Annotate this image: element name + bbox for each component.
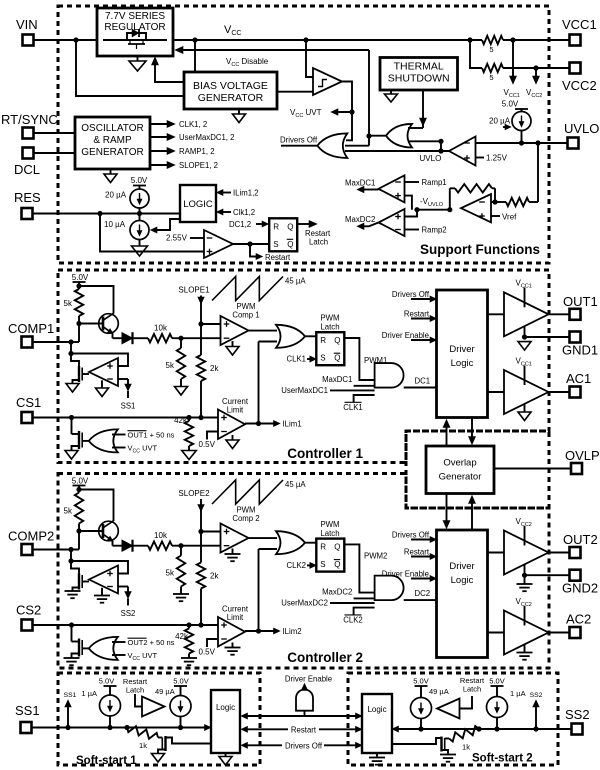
- label 45 uA (controller 2): [285, 480, 306, 489]
- svg-text:0.5V: 0.5V: [199, 648, 216, 657]
- node UVLO line branch to -Vuvlo resistor: [535, 140, 540, 145]
- svg-text:R: R: [320, 543, 326, 552]
- node CS1 at 42k: [186, 415, 191, 420]
- oscillator output UserMaxDC1,2: [150, 133, 234, 142]
- current source 1uA (soft-start 1): [81, 677, 120, 728]
- wire RES line to LOGIC: [33, 213, 180, 215]
- buffer AC1 driver: [488, 370, 549, 414]
- svg-text:R: R: [320, 336, 326, 345]
- node UVLO line at current source: [519, 140, 524, 145]
- ground below OUT2 buffer: [517, 575, 533, 591]
- comparator MaxDC1: [379, 175, 405, 202]
- label + arrow MaxDC1 output: [345, 179, 379, 193]
- resistor 5 (VCC1): [482, 36, 503, 54]
- svg-text:RT/SYNC: RT/SYNC: [1, 112, 58, 127]
- input ILim1,2 to LOGIC: [217, 189, 259, 198]
- svg-text:Latch: Latch: [463, 685, 481, 694]
- svg-text:CS1: CS1: [16, 395, 41, 410]
- wire CS2 line: [33, 624, 218, 626]
- svg-text:Comp 1: Comp 1: [232, 311, 259, 320]
- svg-text:Q: Q: [334, 560, 340, 569]
- and-gate DC1: [375, 363, 404, 388]
- current source 49uA (soft-start 2): [411, 677, 449, 730]
- wire + label DC1 to driver logic: [404, 377, 437, 388]
- svg-text:VCC2: VCC2: [562, 78, 597, 93]
- svg-text:Logic: Logic: [451, 358, 474, 369]
- resistor 1k (soft-start 1): [127, 726, 158, 750]
- wire VCC down to bias generator top: [194, 40, 196, 72]
- label Current Limit (controller 1): [222, 397, 249, 415]
- svg-text:DC1: DC1: [415, 377, 431, 386]
- wire -Vuvlo rail to MaxDC comparators: [417, 209, 450, 211]
- svg-text:Controller 2: Controller 2: [287, 650, 363, 665]
- wire link line 1 between soft-start logics: [241, 713, 362, 719]
- op-amp clamp (controller 2): [89, 566, 118, 594]
- wire MaxDC1 plus input to -Vuvlo rail: [405, 196, 412, 210]
- ground below AC2 buffer: [517, 644, 533, 660]
- wire UVT comparator output to VCC UVT node: [342, 82, 352, 113]
- buffer OUT2 driver: [488, 531, 549, 575]
- pin OVLP: [565, 448, 600, 474]
- svg-text:SS1: SS1: [121, 402, 136, 411]
- svg-text:5.0V: 5.0V: [99, 677, 114, 686]
- ground below Logic 1: [219, 753, 232, 765]
- ground below clamp mosfet (controller 2): [65, 591, 81, 598]
- comparator PWM Comp 2: [221, 524, 249, 553]
- svg-text:Q: Q: [334, 543, 340, 552]
- wire latch Q to AND gate (controller 2): [344, 544, 374, 592]
- oscillator output CLK1,2: [150, 120, 207, 129]
- input arrow Drivers Off (controller 2): [392, 531, 437, 543]
- node junction VCC at x=195: [192, 37, 197, 42]
- svg-text:DC1,2: DC1,2: [229, 220, 251, 229]
- svg-text:1.25V: 1.25V: [486, 154, 508, 163]
- arrow driver1 to overlap (down): [469, 418, 476, 445]
- wire emitter to diode (controller 1): [112, 334, 114, 339]
- comparator 2.55V restart: [204, 230, 233, 258]
- svg-text:COMP2: COMP2: [8, 529, 54, 544]
- svg-text:45 µA: 45 µA: [285, 480, 306, 489]
- svg-text:UserMaxDC2: UserMaxDC2: [281, 599, 328, 608]
- wire 10k to PWM comparator (controller 2): [172, 545, 221, 547]
- ground below oscillator: [104, 169, 117, 183]
- block OSCILLATOR & RAMP GENERATOR: [75, 117, 150, 169]
- label 45 uA (controller 1): [285, 277, 306, 286]
- dashed border: Controller 2 section: [58, 474, 549, 669]
- wire Vref stub + label: [491, 213, 517, 222]
- svg-text:SLOPE1, 2: SLOPE1, 2: [179, 161, 218, 170]
- section label Controller 1: [287, 446, 363, 461]
- wire OR output to PWM latch R (controller 1): [305, 335, 316, 337]
- svg-text:MaxDC2: MaxDC2: [345, 215, 375, 224]
- label + wire MaxDC1 input: [322, 375, 375, 386]
- label 0.5V + wire (controller 2): [199, 639, 219, 657]
- svg-text:2k: 2k: [210, 364, 219, 373]
- svg-text:OVLP: OVLP: [565, 448, 600, 463]
- svg-text:DC2: DC2: [415, 589, 431, 598]
- svg-text:AC2: AC2: [566, 612, 591, 627]
- pin OUT1: [563, 294, 598, 320]
- svg-text:UserMaxDC1: UserMaxDC1: [281, 386, 328, 395]
- svg-text:1k: 1k: [139, 741, 147, 750]
- ground below bias generator: [233, 109, 246, 123]
- resistor 10k (controller 1): [148, 324, 172, 343]
- input stubs blanking OR (controller 1): [112, 435, 126, 448]
- svg-text:1 µA: 1 µA: [81, 689, 97, 698]
- node SS2 signal branch: [533, 726, 538, 731]
- transistor Q1 (npn clamp): [99, 313, 119, 334]
- node 5V (controller 2): [76, 487, 81, 492]
- node GND2 junction + wire: [522, 564, 569, 578]
- restart latch (R/S): [269, 218, 297, 251]
- wire MaxDC2 plus input to -Vuvlo rail: [405, 210, 418, 217]
- wire + arrow ILim1 output: [245, 420, 302, 429]
- wire AC2 buffer output to pin: [549, 632, 570, 634]
- ground below current limit comp (controller 1): [226, 435, 239, 449]
- regulator U1 7.7V SERIES REGULATOR box: [97, 8, 173, 56]
- block THERMAL SHUTDOWN: [380, 58, 458, 91]
- svg-text:2.55V: 2.55V: [166, 234, 188, 243]
- svg-text:SLOPE2: SLOPE2: [178, 489, 210, 498]
- ground below regulator: [129, 56, 146, 71]
- wire OR U2 output to VCC-Disable and big OR: [345, 50, 386, 146]
- svg-text:Driver: Driver: [449, 344, 474, 355]
- supply 5.0V (controller 1): [72, 273, 89, 286]
- wire + arrow SS1 signal up: [64, 692, 77, 728]
- pin AC1: [566, 371, 591, 398]
- svg-text:ILim2: ILim2: [283, 627, 302, 636]
- svg-text:5.0V: 5.0V: [131, 176, 148, 185]
- svg-text:SS2: SS2: [121, 609, 136, 618]
- wire to clamp opamp + input (controller 2): [71, 561, 128, 574]
- svg-text:OUT2: OUT2: [563, 532, 598, 547]
- svg-text:Overlap: Overlap: [443, 458, 476, 469]
- node 2k at CS line (controller 1): [198, 415, 203, 420]
- label 20uA with arrow: [489, 117, 511, 130]
- label VCC UVT (controller 1): [128, 444, 158, 455]
- wire Ramp2 stub + label: [405, 226, 447, 235]
- svg-text:Latch: Latch: [126, 686, 144, 695]
- node slope/2k at PWM + input (controller 2): [198, 529, 203, 534]
- buffer restart latch (soft-start 1): [135, 694, 165, 717]
- svg-text:5.0V: 5.0V: [489, 677, 504, 686]
- wire VCC down to UVT comparator input: [306, 40, 313, 77]
- svg-text:COMP1: COMP1: [8, 321, 54, 336]
- oscillator output RAMP1,2: [150, 147, 215, 156]
- node 2k at CS line (controller 2): [198, 622, 203, 627]
- wire VCC2 row: [503, 67, 569, 69]
- node SS1 signal branch: [65, 725, 70, 730]
- arrow down V_CC1: [504, 40, 520, 99]
- svg-text:SS2: SS2: [565, 707, 590, 722]
- svg-text:ILim1: ILim1: [283, 420, 302, 429]
- input arrow Driver Enable (controller 2): [382, 570, 437, 582]
- mosfet clamp (controller 2): [71, 561, 89, 591]
- svg-text:1 µA: 1 µA: [510, 689, 526, 698]
- svg-text:OUT2 + 50 ns: OUT2 + 50 ns: [128, 638, 175, 647]
- svg-text:2k: 2k: [210, 572, 219, 581]
- label + arrow MaxDC2 output: [345, 215, 379, 230]
- PWM latch (controller 1): [316, 332, 344, 365]
- node after VCC1 resistor: [510, 37, 515, 42]
- svg-text:THERMAL: THERMAL: [394, 61, 444, 73]
- node A (controller 2): [178, 543, 183, 548]
- pin COMP2: [8, 529, 54, 556]
- svg-text:Q: Q: [287, 240, 293, 249]
- label Drivers Off (support): [280, 136, 318, 145]
- svg-text:CLK1: CLK1: [343, 403, 363, 412]
- wire COMP2 node down (controller 2): [68, 550, 73, 564]
- restart latch Q output arrow + label Restart Latch: [297, 221, 331, 247]
- wire + arrow Restart signal out: [250, 244, 291, 262]
- dashed border: Controller 1 section: [58, 270, 549, 463]
- svg-text:& RAMP: & RAMP: [93, 135, 132, 146]
- wire SLOPE1 down to CS line: [198, 296, 205, 418]
- arrow down V_CC2: [526, 68, 542, 99]
- resistor 42k (controller 1): [174, 416, 193, 451]
- wire PWM output to OR (controller 2): [249, 537, 278, 539]
- input arrow Driver Enable (controller 1): [382, 331, 437, 343]
- wire thermal shutdown output down to OR gate: [420, 90, 427, 128]
- section label Soft-start 2: [472, 753, 533, 765]
- svg-text:LOGIC: LOGIC: [183, 199, 213, 210]
- svg-text:BIAS VOLTAGE: BIAS VOLTAGE: [193, 80, 268, 92]
- wire COMP1 pin line: [33, 341, 79, 343]
- svg-text:Latch: Latch: [309, 238, 328, 247]
- node VCC2 branch: [533, 65, 538, 70]
- wire ILim feedback up to OR (controller 1): [259, 342, 278, 424]
- dashed border: Soft-start 2 section: [348, 673, 558, 765]
- svg-text:20 µA: 20 µA: [489, 117, 511, 126]
- ground below current limit comp (controller 2): [225, 643, 241, 655]
- label 2.55V + stub: [166, 234, 204, 243]
- resistor 2k (controller 2): [197, 563, 220, 589]
- ground below PWM comparator (controller 2): [225, 549, 241, 562]
- pin UVLO: [564, 121, 599, 149]
- pin VCC2: [562, 63, 597, 94]
- label SLOPE2: [178, 489, 210, 498]
- label Restart Latch (soft-start 2): [460, 676, 485, 694]
- svg-text:49 µA: 49 µA: [429, 687, 449, 696]
- svg-text:Controller 1: Controller 1: [287, 446, 363, 461]
- node 49uA at SS2 line: [418, 726, 423, 731]
- svg-text:RAMP1, 2: RAMP1, 2: [179, 147, 215, 156]
- svg-text:SS2: SS2: [530, 692, 543, 699]
- svg-text:CLK2: CLK2: [286, 561, 306, 570]
- svg-text:20 µA: 20 µA: [105, 191, 127, 200]
- input resistor to UVLO net: [495, 198, 538, 206]
- oscillator output SLOPE1,2: [150, 161, 218, 170]
- mosfet discharge (soft-start 1): [158, 736, 211, 754]
- wire base to COMP2 line: [79, 531, 103, 550]
- wire OUT1 buffer output to pin: [549, 313, 570, 315]
- block Logic (soft-start 1): [211, 690, 240, 753]
- ground below CS1 mosfet: [65, 451, 78, 460]
- diode D2: [113, 540, 149, 552]
- resistor 5k pullup (controller 2): [64, 490, 84, 532]
- node CS1 at MOSFET: [69, 415, 74, 420]
- node 1k branch (soft-start 1): [124, 725, 129, 730]
- svg-text:Restart: Restart: [404, 310, 430, 319]
- svg-text:Comp 2: Comp 2: [232, 514, 259, 523]
- pin SS1: [15, 703, 40, 733]
- svg-text:GND1: GND1: [562, 343, 598, 358]
- wire + arrow SS1 to clamp minus input: [118, 379, 131, 398]
- svg-text:Latch: Latch: [320, 323, 339, 332]
- label VCC2 above AC buffer: [516, 597, 532, 626]
- dashed border: Support Functions section: [58, 6, 549, 263]
- svg-text:Soft-start 1: Soft-start 1: [76, 755, 137, 767]
- svg-text:UserMaxDC1, 2: UserMaxDC1, 2: [179, 133, 234, 142]
- resistor 2k (controller 1): [197, 355, 220, 381]
- wire VCC1 row: [503, 39, 569, 41]
- wire VCC rail from regulator to VCC1 resistor: [173, 39, 482, 41]
- op-amp clamp (controller 1): [89, 358, 118, 386]
- node VCC UVT: [349, 109, 354, 114]
- feedback resistor (op-amp): [450, 184, 495, 210]
- node slope/2k at PWM + input (controller 1): [198, 321, 203, 326]
- label VCC: [224, 24, 241, 37]
- wire OR U2 bottom input stub: [408, 140, 441, 142]
- svg-text:Ramp1: Ramp1: [422, 178, 447, 187]
- wire Drivers Off output: [281, 145, 317, 147]
- svg-text:CS2: CS2: [16, 603, 41, 618]
- svg-text:5k: 5k: [166, 569, 175, 578]
- section label Controller 2: [287, 650, 363, 665]
- label PWM2: [364, 552, 387, 561]
- wire PWM output to OR (controller 1): [249, 330, 278, 332]
- ground below thermal shutdown: [385, 90, 398, 102]
- node minus input op-amp: [492, 199, 497, 204]
- comparator PWM Comp 1: [221, 316, 249, 345]
- supply 5.0V (controller 2): [72, 477, 89, 490]
- node restart comparator output: [247, 241, 252, 246]
- svg-text:0.5V: 0.5V: [199, 440, 216, 449]
- svg-text:Logic: Logic: [367, 705, 386, 714]
- or-gate U3 Drivers Off: [317, 133, 347, 158]
- svg-text:7.7V SERIES: 7.7V SERIES: [105, 11, 165, 22]
- wire 10k to PWM comparator (controller 1): [172, 337, 221, 339]
- ground below 10uA source: [132, 240, 148, 257]
- resistor 10k (controller 2): [148, 531, 172, 550]
- label + wire UserMaxDC1 input: [281, 386, 374, 395]
- svg-text:GND2: GND2: [562, 581, 598, 596]
- node 5V (controller 1): [76, 283, 81, 288]
- input stubs blanking OR (controller 2): [112, 642, 126, 655]
- ground below OUT1 buffer: [518, 342, 531, 351]
- or-gate blanking (controller 1): [89, 429, 118, 452]
- label SS2 (controller 2): [121, 609, 136, 618]
- svg-text:OUT1: OUT1: [563, 294, 598, 309]
- current source 49uA (soft-start 1): [155, 677, 191, 728]
- node A (controller 1): [178, 336, 183, 341]
- input arrow Restart (controller 2): [404, 548, 437, 560]
- and-gate Driver Enable (bottom): [296, 690, 313, 717]
- label UVLO under comparator: [420, 154, 442, 163]
- svg-text:Restart: Restart: [291, 725, 317, 734]
- diode D1: [113, 332, 149, 344]
- block BIAS VOLTAGE GENERATOR: [184, 72, 277, 109]
- svg-text:MaxDC2: MaxDC2: [322, 587, 352, 596]
- label Restart Latch (soft-start 1): [123, 677, 148, 695]
- svg-text:Driver: Driver: [449, 561, 474, 572]
- svg-text:5: 5: [489, 73, 493, 82]
- svg-text:5k: 5k: [64, 299, 73, 308]
- label VCC Disable: [226, 57, 269, 68]
- wire VIN branch down to bias generator: [76, 40, 184, 96]
- wire + arrow SS2 signal up: [530, 692, 543, 729]
- label + wire MaxDC2 input: [322, 587, 375, 598]
- wire bias generator output to UVT comparator: [277, 91, 313, 93]
- node UVLO output branch: [438, 148, 443, 153]
- svg-text:5.0V: 5.0V: [72, 273, 89, 282]
- block Driver Logic (controller 1): [437, 290, 488, 418]
- label + wire UserMaxDC2 input: [281, 599, 374, 608]
- label PWM Comp 1: [232, 302, 259, 320]
- svg-text:5.0V: 5.0V: [72, 477, 89, 486]
- current source 20uA (UVLO): [502, 100, 531, 144]
- ground below 5k divider (controller 2): [173, 594, 189, 601]
- buffer AC2 driver: [488, 611, 549, 655]
- pin RES: [14, 190, 41, 219]
- pin VIN: [16, 17, 38, 46]
- wire UVLO comparator output to OR gates: [345, 150, 449, 152]
- label + wire CLK1bar input: [343, 395, 374, 412]
- wire + arrow SS2 to clamp minus input: [118, 587, 131, 606]
- svg-text:SS1: SS1: [64, 692, 77, 699]
- svg-text:5.0V: 5.0V: [502, 100, 519, 109]
- svg-text:CLK1: CLK1: [286, 355, 306, 364]
- pin SS2: [565, 707, 590, 735]
- svg-text:ILim1,2: ILim1,2: [233, 189, 259, 198]
- node COMP1 line: [68, 339, 73, 344]
- svg-text:5: 5: [489, 45, 493, 54]
- wire emitter to diode (controller 2): [112, 541, 114, 546]
- input DC1,2 to restart latch: [229, 220, 269, 229]
- pin VCC1: [562, 17, 597, 46]
- svg-text:PWM: PWM: [320, 520, 339, 529]
- block Driver Logic (controller 2): [437, 530, 488, 658]
- label -Vuvlo: [420, 197, 444, 208]
- op-amp -Vuvlo generator: [461, 194, 491, 222]
- ground below PWM comparator (controller 1): [226, 341, 239, 355]
- wire branch to VCC2 row: [470, 40, 482, 68]
- pin DCL: [14, 148, 40, 178]
- pin CS1: [16, 395, 41, 423]
- node -Vuvlo at MaxDC junction: [414, 207, 419, 212]
- label SLOPE1: [178, 286, 210, 295]
- ground below 42k (controller 2): [181, 658, 197, 665]
- comparator Current Limit (controller 2): [218, 617, 245, 647]
- svg-text:Q: Q: [287, 222, 293, 231]
- node COMP2 line: [68, 547, 73, 552]
- svg-text:Drivers Off: Drivers Off: [285, 741, 323, 750]
- wire 5V to transistor collector (controller 2): [79, 490, 114, 522]
- pin RT/SYNC: [1, 112, 58, 139]
- wire VCC Disable from OR gate to regulator: [175, 47, 369, 54]
- svg-text:5.0V: 5.0V: [173, 677, 188, 686]
- wire branch up to OR U2 input: [438, 139, 443, 151]
- svg-text:Soft-start 2: Soft-start 2: [472, 753, 533, 765]
- wire OUT2 buffer output to pin: [549, 552, 570, 554]
- comparator UVLO: [449, 137, 476, 166]
- svg-text:SLOPE1: SLOPE1: [178, 286, 210, 295]
- resistor 1k (soft-start 2): [449, 726, 479, 752]
- svg-text:Driver Enable: Driver Enable: [285, 675, 332, 684]
- node -Vuvlo output: [447, 207, 452, 212]
- svg-text:5.0V: 5.0V: [413, 677, 428, 686]
- wire + label DC2 to driver logic: [404, 589, 437, 600]
